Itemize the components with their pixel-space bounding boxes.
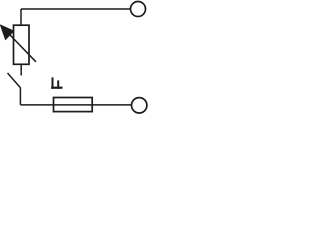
wire switch down vertical [19, 88, 21, 105]
wire from top corner down to resistor [20, 9, 22, 26]
adjustment arrowhead [1, 25, 14, 39]
terminal circle X1 top [131, 2, 146, 17]
label F top arm (left vertical) [52, 77, 54, 88]
terminal circle X2 bottom [132, 98, 147, 113]
wire bottom horizontal [20, 104, 131, 106]
switch fixed contact stub [20, 64, 22, 75]
label F (rotated 90 CCW) stem [51, 87, 62, 89]
switch blade [8, 73, 21, 88]
resistor body (adjustable resistor rectangle) [14, 25, 30, 64]
fuse F body [54, 98, 93, 112]
label F middle arm [57, 80, 59, 88]
wire top horizontal [21, 8, 130, 10]
adjustment arrow shaft [8, 32, 36, 61]
